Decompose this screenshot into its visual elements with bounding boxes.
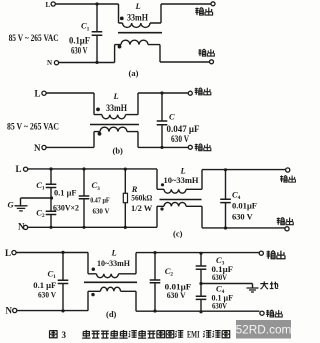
wire bottom rail left (a)	[59, 45, 121, 63]
wire top rail left (b)	[46, 93, 102, 115]
choke core (c)	[160, 199, 202, 201]
svg-text:630 V: 630 V	[71, 46, 88, 56]
resistor R (c)	[124, 169, 126, 193]
svg-text:85 V ~ 265 VAC: 85 V ~ 265 VAC	[7, 122, 59, 132]
svg-text:N: N	[34, 143, 41, 153]
svg-text:33mH: 33mH	[106, 104, 128, 114]
svg-text:N: N	[6, 306, 13, 316]
svg-text:G: G	[8, 200, 15, 210]
svg-text:L: L	[16, 164, 22, 174]
inductor L3 lower winding (c)	[160, 207, 163, 210]
capacitor C2 (c)	[50, 198, 52, 211]
node output bottom (c)	[285, 227, 289, 231]
wire top rail left (a)	[56, 4, 123, 23]
svg-text:2: 2	[170, 271, 173, 277]
watermark 52RD.com	[236, 320, 291, 339]
wire bottom rail right (a)	[148, 45, 210, 62]
node output top (a)	[211, 2, 215, 6]
svg-text:(b): (b)	[113, 146, 124, 156]
svg-text:0.47 μF: 0.47 μF	[90, 195, 110, 204]
svg-text:630 V: 630 V	[38, 289, 57, 299]
svg-text:C: C	[169, 111, 175, 121]
inductor L2 lower winding (b)	[98, 132, 102, 136]
svg-text:0.1μF: 0.1μF	[69, 36, 90, 46]
wire bottom rail left (b)	[46, 132, 100, 148]
svg-text:10~33mH: 10~33mH	[164, 175, 199, 185]
svg-text:630 V: 630 V	[171, 135, 189, 145]
svg-text:1/2 W: 1/2 W	[131, 203, 153, 213]
wire top rail right (c)	[186, 170, 286, 190]
svg-text:33mH: 33mH	[127, 14, 149, 24]
svg-text:0.1 μF: 0.1 μF	[54, 187, 77, 197]
capacitor C1 (d)	[62, 252, 64, 280]
choke core (d)	[84, 281, 137, 283]
node output top (d)	[259, 251, 263, 255]
capacitor C3 (d)	[200, 253, 202, 266]
ground G (c)	[21, 198, 52, 206]
svg-text:L: L	[113, 91, 119, 101]
inductor L4 lower winding (d)	[91, 293, 94, 296]
wire bottom rail right (d)	[121, 291, 260, 311]
svg-text:10~33mH: 10~33mH	[97, 258, 130, 268]
capacitor C4 (d)	[200, 284, 202, 297]
svg-text:3: 3	[62, 330, 67, 340]
caption text 滤波器	[203, 331, 211, 338]
svg-text:52RD.com: 52RD.com	[236, 323, 292, 337]
svg-text:EMI: EMI	[187, 330, 200, 340]
node earth junction (d)	[199, 282, 202, 285]
svg-text:(c): (c)	[173, 228, 183, 238]
svg-text:630 V: 630 V	[167, 290, 187, 300]
node output bottom (a)	[210, 60, 214, 64]
svg-text:L: L	[5, 248, 11, 258]
capacitor C (b)	[161, 93, 163, 121]
capacitor C3 (c)	[83, 169, 85, 196]
node output bottom (b)	[188, 145, 192, 149]
svg-text:560kΩ: 560kΩ	[131, 192, 152, 202]
svg-text:630V×2: 630V×2	[53, 202, 79, 212]
wire bottom rail right (c)	[186, 206, 285, 228]
svg-text:85 V ~ 265 VAC: 85 V ~ 265 VAC	[9, 34, 59, 44]
inductor L1 choke upper winding (a)	[120, 17, 124, 21]
wire bottom rail left (d)	[17, 310, 88, 312]
wire top rail right (b)	[126, 93, 189, 115]
svg-text:L: L	[35, 89, 41, 99]
svg-text:630V: 630V	[212, 300, 228, 310]
choke core (b)	[90, 124, 139, 126]
capacitor C1 (c)	[50, 169, 52, 184]
capacitor C2 (d)	[154, 253, 156, 280]
caption text 单片开关电源常用的四种	[82, 330, 90, 338]
inductor L4 choke upper winding (d)	[88, 252, 97, 273]
svg-text:0.047 μF: 0.047 μF	[167, 125, 200, 135]
node output top (c)	[286, 168, 290, 172]
svg-text:(a): (a)	[129, 68, 139, 78]
svg-text:630V: 630V	[212, 272, 228, 282]
wire bottom rail left (c)	[28, 226, 157, 228]
svg-text:3: 3	[97, 186, 100, 192]
wire bottom rail right (b)	[127, 132, 188, 148]
svg-text:2: 2	[42, 213, 45, 219]
wire top rail left (d)	[16, 252, 88, 254]
wire top rail left (c)	[28, 168, 157, 170]
svg-text:L: L	[46, 1, 51, 9]
node G junction (c)	[50, 196, 53, 199]
inductor L1 lower winding (a)	[118, 45, 122, 49]
earth ground symbol (d)	[201, 284, 253, 288]
wire top rail right (a)	[150, 4, 211, 23]
svg-text:0.01μF: 0.01μF	[232, 200, 257, 210]
svg-text:(d): (d)	[106, 309, 117, 319]
node output top (b)	[188, 91, 192, 95]
wire top rail right (d)	[119, 253, 262, 274]
svg-text:1: 1	[87, 26, 90, 32]
svg-text:L: L	[111, 247, 117, 257]
choke core (a)	[118, 32, 162, 34]
svg-text:0.1 μF: 0.1 μF	[33, 280, 56, 290]
svg-text:L: L	[135, 1, 141, 11]
svg-text:1: 1	[42, 185, 45, 191]
svg-text:N: N	[47, 59, 52, 67]
capacitor C1 (a)	[95, 2, 98, 5]
svg-text:630 V: 630 V	[232, 211, 254, 221]
node output bottom (d)	[260, 311, 264, 315]
net label earth 大地 (d)	[260, 281, 268, 289]
inductor L2 choke upper winding (b)	[96, 108, 100, 112]
capacitor C4 (c)	[225, 170, 227, 199]
inductor L3 choke upper winding (c)	[157, 169, 164, 189]
svg-text:L: L	[180, 166, 186, 176]
svg-text:630 V: 630 V	[93, 206, 111, 215]
caption 图3	[50, 331, 58, 338]
